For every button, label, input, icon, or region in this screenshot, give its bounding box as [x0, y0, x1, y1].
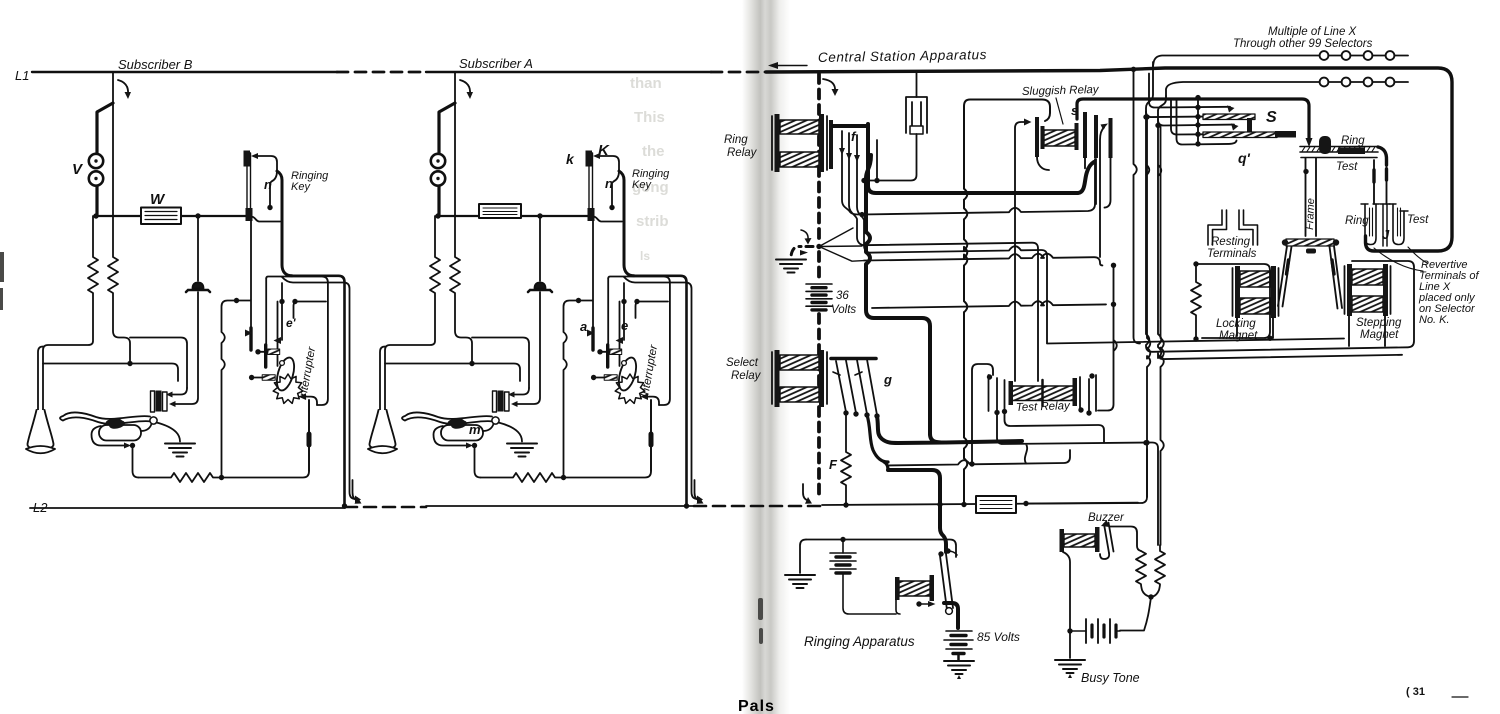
wire: buzzer to ground — [1063, 552, 1070, 658]
resistor (buzzer left) — [1136, 551, 1149, 597]
relay Select Relay coils — [772, 350, 827, 407]
svg-text:Volts: Volts — [831, 304, 856, 316]
svg-text:Multiple of Line X: Multiple of Line X — [1268, 26, 1358, 38]
frame member — [1306, 158, 1317, 236]
wire: drops to revertive terminals — [1374, 160, 1387, 204]
select relay contact bank g — [831, 359, 880, 419]
arrow into central station — [772, 65, 807, 67]
revertive terminal Test hook — [1389, 204, 1408, 245]
subscriber B telephone set — [26, 72, 362, 509]
svg-text:This: This — [634, 109, 665, 126]
svg-text:36: 36 — [836, 290, 849, 302]
label Revertive Terminals note — [1418, 259, 1479, 326]
selector brush S bar 1 — [1203, 114, 1255, 134]
svg-text:ls: ls — [640, 249, 650, 263]
svg-text:Interrupter: Interrupter — [297, 345, 318, 400]
wire: test relay lower rows — [997, 413, 1158, 545]
svg-text:Key: Key — [632, 179, 652, 191]
ghost bleed-through text — [630, 75, 669, 263]
svg-text:Relay: Relay — [731, 370, 762, 382]
svg-text:Interrupter: Interrupter — [639, 343, 660, 398]
svg-text:V: V — [72, 161, 84, 178]
wire: long column to buzzer resistor — [1161, 125, 1164, 545]
svg-text:No. K.: No. K. — [1419, 314, 1450, 326]
svg-text:g: g — [883, 372, 892, 387]
wire: ringing apparatus top row — [806, 540, 956, 558]
resistor (buzzer right) — [1153, 545, 1165, 597]
svg-text:Pals: Pals — [738, 698, 775, 714]
wire: thick drop to ringing apparatus — [888, 470, 940, 503]
wire: dashed trunk (L1 to battery) — [817, 74, 821, 500]
induction coil box (A) — [479, 204, 521, 218]
ringing contact arrow — [916, 601, 921, 606]
svg-text:Through other 99 Selectors: Through other 99 Selectors — [1233, 38, 1373, 50]
battery 85 Volts — [944, 631, 973, 660]
svg-text:Central Station Apparatus: Central Station Apparatus — [818, 47, 987, 65]
svg-text:than: than — [630, 75, 662, 92]
ringing interrupter coil — [895, 575, 934, 614]
condenser — [864, 71, 927, 181]
battery (busy tone) — [1070, 619, 1120, 643]
battery (ringing control) — [830, 540, 896, 615]
magnet Locking Magnet — [1233, 266, 1279, 318]
wire: sluggish contact drops — [1085, 158, 1096, 204]
svg-text:J: J — [1382, 227, 1390, 242]
wire: thick bus from ring relay contacts — [868, 151, 1094, 193]
wire: row d from battery fan — [864, 254, 1102, 266]
svg-text:a: a — [580, 319, 587, 334]
svg-text:( 31: ( 31 — [1406, 686, 1425, 698]
svg-text:k: k — [566, 151, 575, 167]
wire: selector feed row 4 — [1171, 99, 1203, 135]
wire: armature to 85V battery — [944, 603, 958, 628]
svg-text:the: the — [642, 143, 665, 160]
relay Ring Relay coils — [772, 114, 827, 172]
svg-text:Subscriber B: Subscriber B — [118, 57, 193, 72]
wire: L2 tail to busy tone feed — [1026, 502, 1138, 505]
svg-text:W: W — [150, 191, 166, 208]
wire L1 — [32, 71, 766, 73]
svg-text:K: K — [598, 142, 610, 159]
ringing armature — [938, 548, 957, 614]
ring and test contact bar — [1300, 136, 1387, 165]
page gutter shadow — [742, 0, 790, 714]
wire: selector feed row 5 to q prime — [1177, 99, 1237, 145]
buzzer coil — [1060, 527, 1100, 552]
ring relay armature and contact bank f — [829, 120, 880, 253]
svg-text:e: e — [621, 318, 628, 333]
svg-text:Stepping: Stepping — [1356, 317, 1402, 329]
ratchet bar — [1282, 239, 1339, 254]
wire: long column to L2 corner — [1147, 117, 1150, 497]
wire: resistors to battery — [1120, 597, 1151, 631]
ground (central battery) — [776, 260, 806, 273]
svg-text:Test Relay: Test Relay — [1016, 400, 1072, 414]
wire: arrow feed to sluggish armature — [1015, 122, 1028, 381]
wire: column to sluggish back contact — [1100, 128, 1104, 258]
stray mark bottom right — [1452, 696, 1468, 698]
svg-text:Sluggish Relay: Sluggish Relay — [1022, 84, 1100, 98]
svg-text:F: F — [829, 457, 838, 472]
wire: row under magnets — [1047, 339, 1344, 344]
svg-text:Test: Test — [1336, 161, 1358, 173]
wire: test relay left contact hat — [972, 364, 993, 464]
svg-text:Resting: Resting — [1211, 236, 1251, 248]
wire: multiple drop column with junctions — [1197, 98, 1199, 144]
ground (busy tone) — [1055, 660, 1085, 673]
wire: buzzer armature to resistors — [1110, 527, 1141, 552]
svg-text:Ring: Ring — [1345, 215, 1369, 227]
gutter smudges — [0, 252, 763, 644]
svg-text:n: n — [264, 177, 272, 192]
resting terminals — [1208, 210, 1258, 245]
leader curves to revertive note — [1374, 247, 1427, 271]
svg-text:Select: Select — [726, 357, 759, 369]
svg-text:Ring: Ring — [724, 134, 748, 146]
wire: heavy feed to sluggish relay s — [1077, 99, 1309, 140]
junction fan at battery — [816, 244, 821, 249]
wire: multiple line 1 with selector terminals — [1153, 51, 1408, 66]
relay Sluggish Relay — [1035, 112, 1113, 208]
wire: locking magnet loop — [1196, 264, 1270, 338]
ground (ringing battery) — [785, 575, 815, 588]
wire: sluggish armature to long row g — [1037, 157, 1049, 170]
relay Test Relay — [987, 373, 1096, 415]
arrow at trunk top — [823, 79, 835, 91]
svg-text:Subscriber A: Subscriber A — [459, 56, 533, 71]
induction coil W box (B) — [141, 208, 181, 225]
svg-text:Ring: Ring — [1341, 135, 1365, 147]
resistor (selector bank) — [1191, 264, 1201, 339]
buzzer armature — [1100, 520, 1114, 559]
wire L1 into station (top bus to right loop) — [766, 68, 1452, 251]
wire: column from multiple 2 to brush row 3 and lower row — [1158, 96, 1402, 359]
svg-text:Terminals: Terminals — [1207, 248, 1257, 260]
wire: row to q row a — [862, 159, 1095, 215]
selector brush S bar 2 — [1203, 131, 1296, 138]
wire L2 — [30, 506, 822, 508]
wire: trunk column from L1 — [1134, 69, 1141, 343]
exit arrow to L2 at station — [803, 484, 809, 501]
ground (85V) — [944, 661, 974, 674]
svg-text:L2: L2 — [33, 500, 48, 515]
wire: row c — [868, 246, 1047, 343]
wire: magnet bottom drops — [1237, 316, 1385, 346]
wire: row b — [864, 243, 1038, 381]
svg-text:S: S — [1266, 109, 1277, 126]
svg-text:Magnet: Magnet — [1360, 329, 1399, 341]
revertive center post — [1383, 204, 1387, 246]
svg-text:Test: Test — [1407, 214, 1429, 226]
wire: row f — [1111, 302, 1116, 307]
magnet Stepping Magnet — [1345, 264, 1391, 316]
wire: multiple line 2 with selector terminals — [1166, 78, 1408, 96]
resistor F — [841, 413, 851, 505]
svg-text:Frame: Frame — [1304, 198, 1317, 230]
wire: ringing apparatus drop — [940, 505, 946, 552]
svg-text:L1: L1 — [15, 68, 29, 83]
svg-text:Ringing Apparatus: Ringing Apparatus — [804, 634, 915, 649]
wire: column from multiple 1 to brush row 2 and magnet row — [1146, 62, 1414, 352]
svg-text:Key: Key — [291, 181, 311, 193]
svg-text:q': q' — [1238, 150, 1251, 166]
wire: loop around condenser area — [964, 100, 1050, 503]
wire: L2 inside central station — [822, 449, 1147, 505]
revertive terminal Ring hook — [1361, 204, 1379, 245]
wire: thick S-bundle to ringer row — [877, 416, 1022, 443]
subscriber A telephone set — [368, 72, 704, 509]
battery 36 Volts — [806, 284, 832, 310]
pawl arm left — [1278, 246, 1292, 307]
wire: thick bus to ringing feed — [866, 155, 930, 434]
svg-text:Busy Tone: Busy Tone — [1081, 671, 1140, 685]
svg-text:e': e' — [286, 316, 297, 330]
wire: selector feed row 1 with arrow — [1149, 74, 1230, 108]
svg-text:s: s — [1071, 103, 1078, 118]
impedance coil on L2 — [976, 496, 1016, 513]
svg-text:n: n — [605, 176, 613, 191]
svg-text:strib: strib — [636, 213, 669, 230]
wire: test arrow column — [1098, 265, 1117, 410]
pawl arm right — [1330, 246, 1343, 309]
wire: q drop from test row — [1005, 412, 1105, 443]
svg-text:m: m — [469, 422, 481, 437]
dashed branch to ground — [791, 247, 813, 259]
svg-text:85 Volts: 85 Volts — [977, 630, 1020, 644]
svg-text:Relay: Relay — [727, 147, 758, 159]
